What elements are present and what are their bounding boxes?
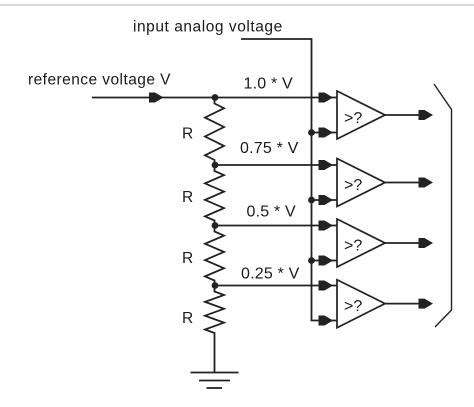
arrowhead into U4 - input [319, 316, 334, 326]
op-amp comparator U1 [337, 91, 385, 139]
junction on analog bus (to U2) [308, 197, 315, 204]
junction on analog bus (to U1) [308, 129, 315, 136]
svg-text:R: R [182, 126, 193, 143]
svg-text:>?: >? [344, 238, 362, 255]
output wire of U4 [385, 303, 431, 305]
svg-text:>?: >? [344, 110, 362, 127]
arrowhead into U2 - input [319, 195, 334, 205]
wire: tap node 0.25*V to U4 + input [215, 285, 337, 287]
wire: tap node 0.5*V to U3 + input [215, 225, 337, 227]
output wire of U2 [385, 182, 431, 184]
junction on analog bus (to U3) [308, 257, 315, 264]
svg-text:input analog voltage: input analog voltage [133, 19, 283, 36]
wire: analog bus branch to U1 - input [312, 132, 338, 134]
op-amp comparator U4 [337, 280, 385, 328]
output arrowhead of U4 [419, 299, 434, 309]
junction node 0.75*V [212, 162, 219, 169]
wire: analog bus branch to U2 - input [312, 199, 338, 201]
resistor R4 [205, 286, 224, 339]
arrowhead into U4 + input [319, 281, 334, 291]
arrowhead into U1 - input [319, 128, 334, 138]
svg-text:0.75 * V: 0.75 * V [240, 140, 299, 157]
svg-text:reference voltage V: reference voltage V [28, 72, 171, 89]
resistor R3 [205, 226, 224, 286]
arrowhead into U3 + input [319, 221, 334, 231]
junction node 0.25*V [212, 282, 219, 289]
ground [191, 373, 239, 389]
arrowhead into U3 - input [319, 256, 334, 266]
op-amp comparator U2 [337, 159, 385, 207]
svg-text:1.0 * V: 1.0 * V [244, 75, 294, 92]
output wire of U1 [385, 114, 431, 116]
gray separator line at top of page [0, 4, 474, 6]
output arrowhead of U2 [419, 178, 434, 188]
resistor R2 [205, 165, 224, 226]
arrowhead on reference voltage wire [149, 93, 164, 103]
wire: tap node 0.75*V to U2 + input [215, 164, 337, 166]
svg-text:>?: >? [344, 177, 362, 194]
arrowhead into U1 + input [319, 93, 334, 103]
wire: analog bus branch to U3 - input [312, 260, 338, 262]
output arrowhead of U1 [419, 110, 434, 120]
junction node 1.0*V [212, 94, 219, 101]
op-amp comparator U3 [337, 219, 385, 267]
wire: reference voltage to U1 + input (node 1.0*V) [92, 97, 337, 99]
output wire of U3 [385, 242, 431, 244]
junction node 0.5*V [212, 222, 219, 229]
output group bracket (right brace) [434, 84, 452, 327]
output arrowhead of U3 [419, 238, 434, 248]
svg-text:0.5 * V: 0.5 * V [247, 204, 297, 221]
svg-text:R: R [182, 250, 193, 267]
resistor R1 [205, 98, 224, 166]
svg-text:0.25 * V: 0.25 * V [241, 266, 300, 283]
svg-text:>?: >? [344, 298, 362, 315]
svg-text:R: R [182, 189, 193, 206]
svg-text:R: R [182, 310, 193, 327]
wire: R4 bottom to ground [214, 338, 216, 373]
wire: input analog voltage horizontal + vertical bus [241, 39, 337, 321]
arrowhead into U2 + input [319, 160, 334, 170]
